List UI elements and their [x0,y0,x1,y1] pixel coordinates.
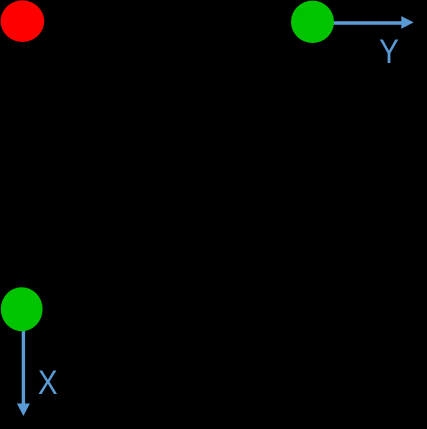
svg-text:X: X [38,364,58,402]
svg-text:Y: Y [379,33,399,71]
